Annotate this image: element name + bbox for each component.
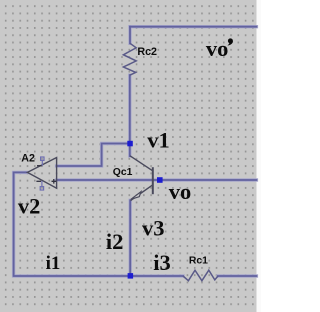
svg-text:i1: i1 (46, 253, 61, 274)
svg-text:vo: vo (169, 179, 192, 204)
svg-text:Rc1: Rc1 (189, 256, 208, 267)
svg-text:i3: i3 (153, 250, 171, 275)
svg-text:Rc2: Rc2 (137, 46, 157, 58)
svg-text:Qc1: Qc1 (113, 167, 133, 178)
svg-text:vo: vo (206, 36, 229, 61)
svg-text:v1: v1 (147, 128, 170, 153)
svg-text:v3: v3 (142, 216, 165, 241)
svg-text:i2: i2 (106, 229, 124, 254)
svg-text:A2: A2 (21, 153, 35, 165)
svg-text:v2: v2 (18, 193, 41, 218)
